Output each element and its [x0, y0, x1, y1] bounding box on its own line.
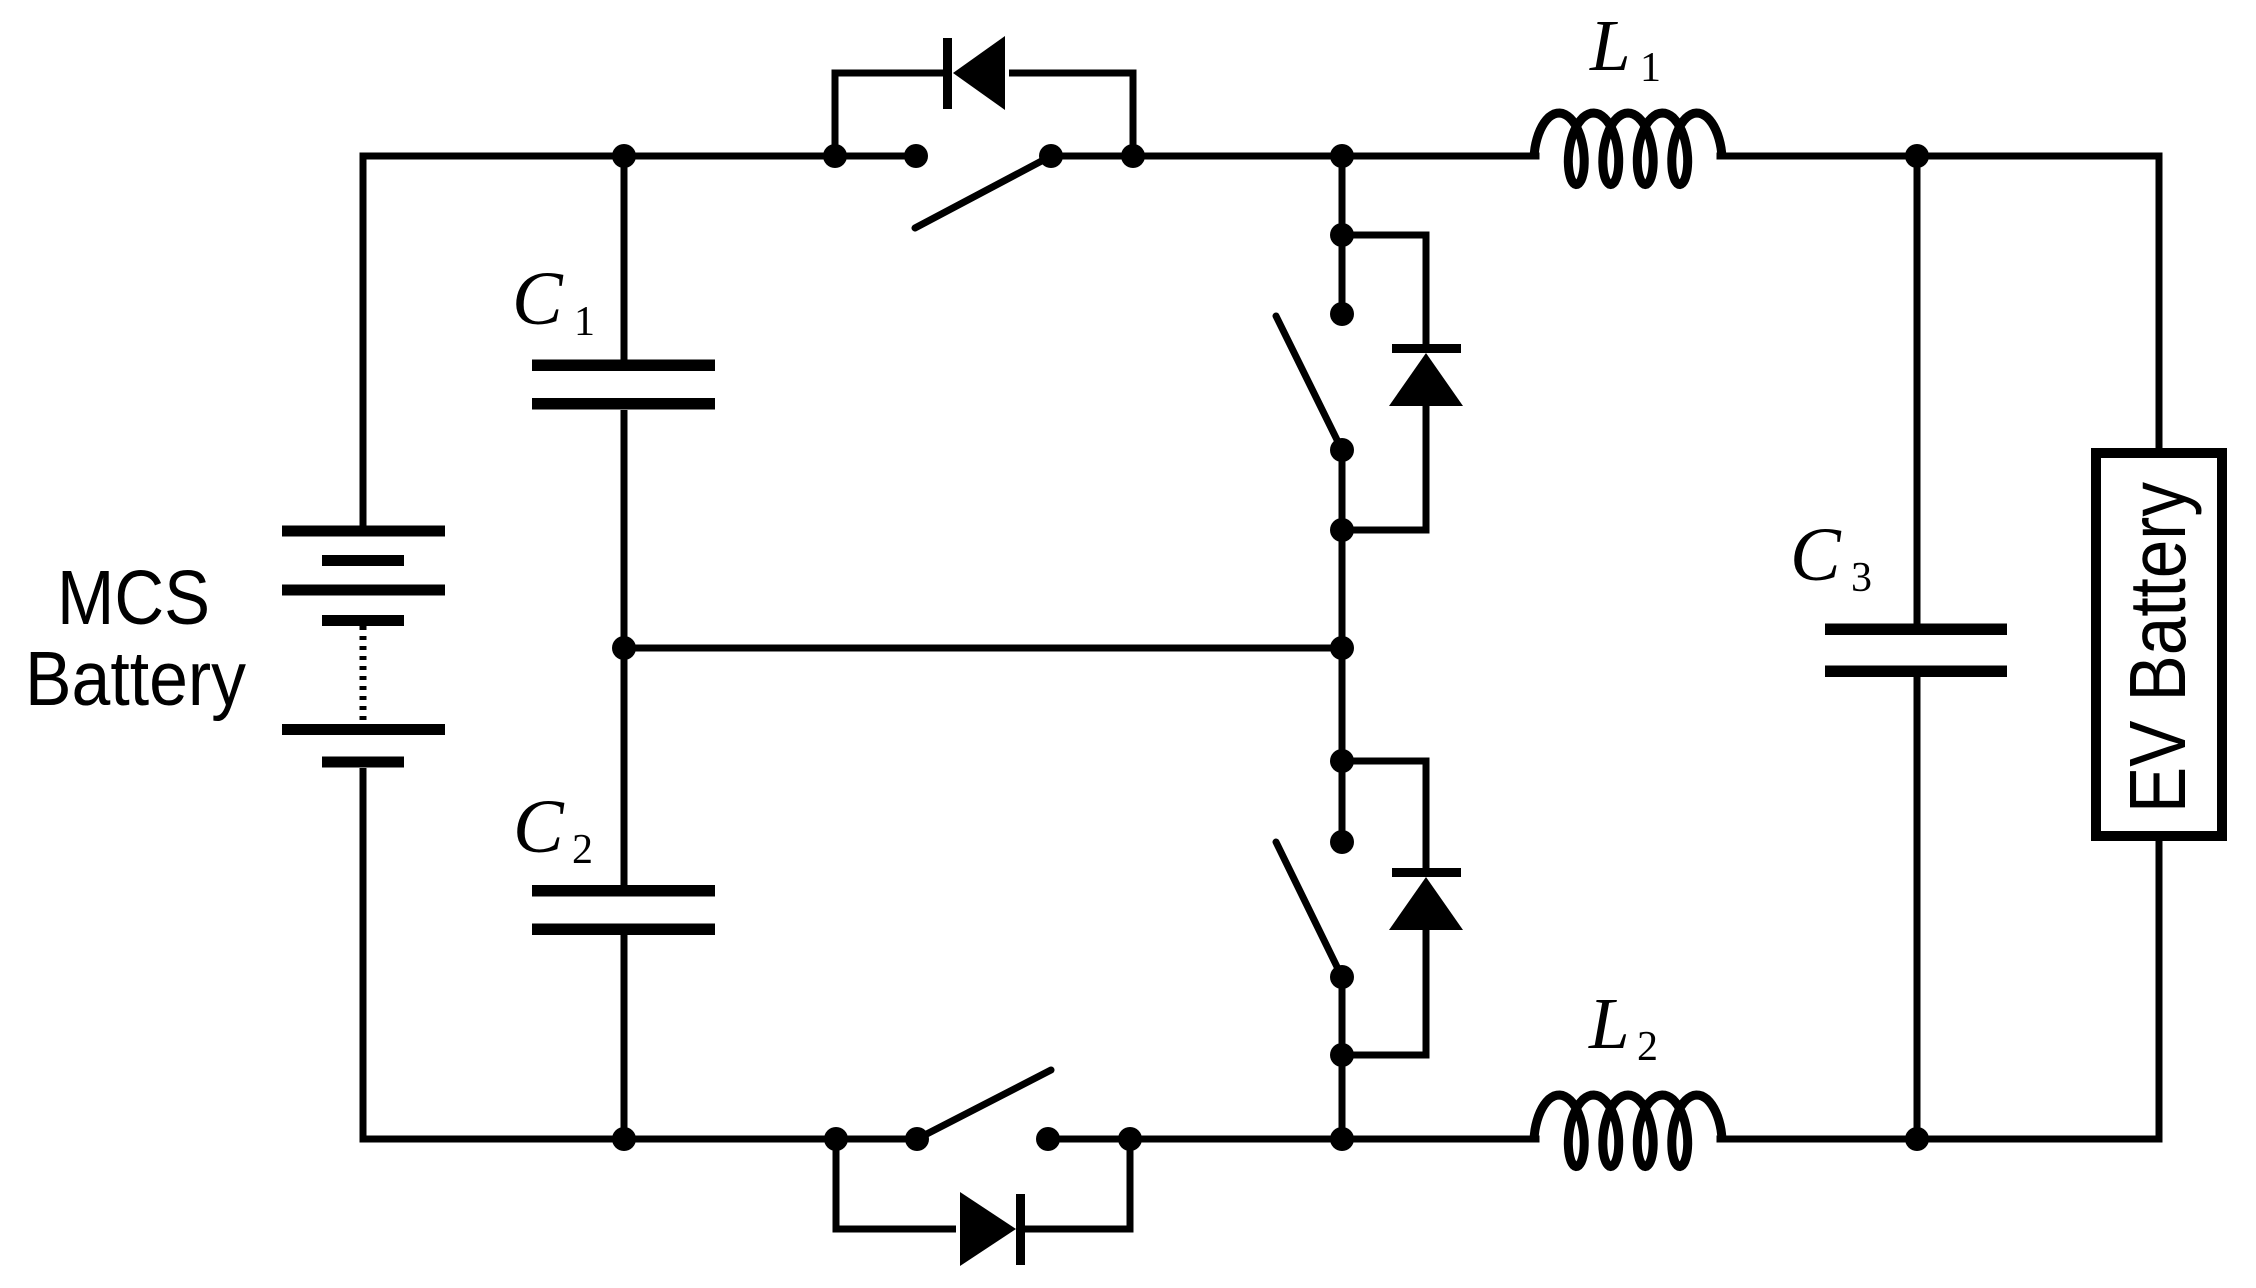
svg-text:MCS: MCS: [57, 555, 210, 641]
wire middle horizontal (node M): [624, 645, 1342, 652]
battery MCS short plate 1: [322, 555, 404, 566]
node bottom loop left: [824, 1127, 848, 1151]
svg-text:C: C: [513, 785, 565, 869]
diode D3 triangle: [953, 36, 1005, 110]
node bottom C3: [1905, 1127, 1929, 1151]
node mid right: [1330, 636, 1354, 660]
switch S2 arm (lower middle): [1276, 842, 1342, 977]
svg-text:EV Battery: EV Battery: [2113, 482, 2202, 813]
wire diode D1 branch lower: [1342, 406, 1426, 530]
wire middle branch: S1 pivot to S2 top: [1339, 450, 1346, 842]
diode D2 cathode bar: [1392, 868, 1461, 877]
wire mid node to C2: [621, 648, 628, 886]
node bottom loop right: [1118, 1127, 1142, 1151]
diode D4 triangle (bottom loop): [960, 1192, 1016, 1266]
EV battery box: [2096, 453, 2222, 836]
wire diode D2 branch lower: [1342, 929, 1426, 1055]
node mid left: [612, 636, 636, 660]
wire middle branch: S2 pivot to bottom rail: [1339, 977, 1346, 1139]
wire top bypass loop left (to D3 cathode): [835, 73, 943, 156]
capacitor C1 plate top: [532, 360, 715, 372]
switch S1 arm (upper middle): [1276, 316, 1342, 450]
wire right vertical lower (from EV battery): [2156, 836, 2163, 1139]
wire bottom rail left segment: [363, 1136, 917, 1143]
node D1 bottom: [1330, 518, 1354, 542]
wire bottom bypass loop right (from D4 cathode): [1024, 1139, 1130, 1229]
node bottom C2: [612, 1127, 636, 1151]
wire C1 branch upper: [621, 156, 628, 360]
switch S3 arm (top rail): [915, 156, 1051, 228]
wire C1 to mid node: [621, 410, 628, 648]
battery MCS long plate 2: [282, 585, 445, 596]
svg-text:1: 1: [1640, 45, 1661, 91]
node top loop left: [823, 144, 847, 168]
node S3 right terminal: [1039, 144, 1063, 168]
svg-text:2: 2: [572, 827, 593, 873]
wire bottom bypass loop left (to D4 anode): [836, 1139, 956, 1229]
wire left vertical below MCS battery: [360, 768, 367, 1139]
capacitor C3 plate top: [1825, 624, 2007, 636]
wire top rail middle segment: [1051, 153, 1536, 160]
switch S4 arm (bottom rail): [917, 1070, 1051, 1139]
svg-text:1: 1: [574, 299, 595, 345]
node bottom mid branch: [1330, 1127, 1354, 1151]
capacitor C3 plate bottom: [1825, 666, 2007, 678]
node D1 top: [1330, 223, 1354, 247]
battery MCS long plate 1: [282, 526, 445, 537]
wire C2 to bottom rail: [621, 935, 628, 1139]
battery MCS short plate 3: [322, 757, 404, 768]
wire C3 branch lower: [1914, 675, 1921, 1139]
battery MCS short plate 2: [322, 615, 404, 626]
diode D1 cathode bar: [1392, 344, 1461, 353]
wire top bypass loop right (from D3 anode): [1009, 73, 1133, 156]
wire left vertical above MCS battery: [360, 156, 367, 526]
node S1 pivot: [1330, 438, 1354, 462]
node S2 top: [1330, 830, 1354, 854]
node top loop right: [1121, 144, 1145, 168]
svg-text:L: L: [1588, 983, 1630, 1064]
svg-text:3: 3: [1851, 555, 1872, 601]
wire diode D1 branch upper: [1342, 235, 1426, 344]
battery MCS long plate 3: [282, 724, 445, 735]
capacitor C2 plate top: [532, 885, 715, 897]
node top mid branch: [1330, 144, 1354, 168]
wire middle branch: rail to S1 top: [1339, 156, 1346, 314]
diode D4 cathode bar: [1016, 1194, 1025, 1265]
svg-text:C: C: [1790, 513, 1842, 597]
capacitor C2 plate bottom: [532, 924, 715, 936]
svg-text:Battery: Battery: [25, 636, 246, 722]
inductor L2 coil: [1534, 1095, 1722, 1167]
wire top rail right segment: [1720, 153, 2159, 160]
diode D2 triangle: [1389, 877, 1463, 930]
node S3 left terminal: [904, 144, 928, 168]
wire bottom rail middle segment: [1048, 1136, 1536, 1143]
wire C3 branch upper: [1914, 156, 1921, 625]
capacitor C1 plate bottom: [532, 398, 715, 410]
node top C1: [612, 144, 636, 168]
wire bottom rail right segment: [1720, 1136, 2159, 1143]
node top C3: [1905, 144, 1929, 168]
node D2 bottom: [1330, 1043, 1354, 1067]
svg-text:2: 2: [1637, 1024, 1658, 1070]
diode D3 cathode bar (top loop): [943, 38, 952, 109]
wire right vertical upper (to EV battery): [2156, 156, 2163, 453]
wire diode D2 branch upper: [1342, 761, 1426, 868]
wire top rail left segment: [363, 153, 916, 160]
node S1 top: [1330, 302, 1354, 326]
diode D1 triangle: [1389, 353, 1463, 406]
node S2 pivot: [1330, 965, 1354, 989]
node D2 top: [1330, 749, 1354, 773]
svg-text:C: C: [512, 257, 564, 341]
node S4 right terminal: [1036, 1127, 1060, 1151]
svg-text:L: L: [1589, 5, 1631, 86]
battery MCS dotted separator: [360, 626, 367, 724]
inductor L1 coil: [1534, 113, 1722, 185]
node S4 pivot: [905, 1127, 929, 1151]
